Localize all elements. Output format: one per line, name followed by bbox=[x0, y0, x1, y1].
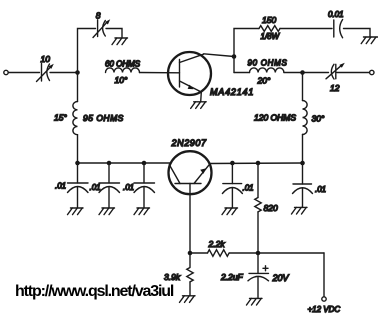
svg-text:90 OHMS: 90 OHMS bbox=[248, 59, 288, 68]
node output junction bbox=[300, 70, 305, 75]
inductor L4 120 OHMS bbox=[303, 73, 308, 164]
capacitor C .01 bypass 5 bbox=[293, 163, 313, 207]
wire bbox=[344, 29, 371, 38]
wire bbox=[234, 72, 250, 74]
svg-text:95 OHMS: 95 OHMS bbox=[83, 113, 124, 123]
svg-text:+12 VDC: +12 VDC bbox=[308, 305, 341, 314]
wire bbox=[106, 29, 122, 39]
capacitor C 8pF variable bbox=[93, 19, 110, 37]
node bottom left bbox=[188, 251, 193, 256]
ground bbox=[222, 208, 238, 215]
wire bbox=[190, 252, 208, 254]
svg-text:20°: 20° bbox=[257, 76, 271, 86]
node input junction bbox=[75, 70, 80, 75]
ground bbox=[361, 37, 378, 44]
svg-text:10: 10 bbox=[41, 54, 51, 64]
wire +12V feed bbox=[323, 253, 325, 297]
ground bbox=[292, 207, 308, 214]
resistor R1 150 bbox=[259, 26, 280, 32]
node rail left 1 bbox=[75, 161, 80, 166]
wire bbox=[50, 72, 78, 74]
node rail right 2 bbox=[256, 161, 261, 166]
ground bbox=[247, 298, 263, 305]
wire bbox=[303, 72, 329, 74]
svg-text:20V: 20V bbox=[272, 273, 290, 283]
wire mid rail right bbox=[209, 162, 302, 165]
wire bbox=[8, 72, 39, 74]
resistor R2 820 bbox=[255, 163, 261, 253]
output terminal bbox=[370, 70, 374, 74]
inductor L2 90 OHMS bbox=[250, 68, 284, 73]
svg-text:MA42141: MA42141 bbox=[210, 87, 254, 97]
wire collector bbox=[204, 54, 234, 57]
svg-text:12: 12 bbox=[330, 83, 340, 93]
node bottom right bbox=[256, 251, 261, 256]
wire base MA42141 bbox=[140, 72, 180, 74]
wire bbox=[233, 57, 235, 73]
capacitor C 10pF variable bbox=[37, 64, 54, 82]
node rail left 2 bbox=[107, 161, 112, 166]
svg-text:.01: .01 bbox=[90, 183, 101, 192]
node collector junction bbox=[232, 54, 237, 59]
inductor L1 60 OHMS bbox=[106, 68, 140, 73]
ground bbox=[191, 102, 207, 109]
wire bbox=[280, 28, 332, 30]
wire bbox=[230, 252, 325, 254]
ground bbox=[112, 38, 128, 45]
svg-text:3.9k: 3.9k bbox=[164, 272, 181, 282]
ground bbox=[68, 208, 84, 215]
capacitor C 0.01 bbox=[334, 20, 343, 38]
svg-text:1/8W: 1/8W bbox=[261, 32, 281, 41]
svg-text:60 OHMS: 60 OHMS bbox=[105, 60, 141, 69]
resistor R3 2.2k bbox=[208, 250, 230, 257]
wire bbox=[234, 29, 259, 57]
capacitor C 12pF variable bbox=[326, 63, 345, 79]
svg-text:15°: 15° bbox=[54, 113, 67, 123]
wire mid rail left bbox=[78, 162, 171, 164]
wire base stem Q2 bbox=[189, 184, 191, 254]
resistor R4 3.9k bbox=[187, 253, 193, 296]
ground bbox=[180, 296, 196, 303]
svg-text:8: 8 bbox=[96, 11, 101, 21]
svg-text:0.01: 0.01 bbox=[328, 10, 344, 19]
wire bbox=[78, 29, 96, 73]
node rail right 1 bbox=[230, 161, 235, 166]
capacitor C5 2.2uF electrolytic bbox=[248, 253, 269, 298]
wire bbox=[337, 72, 369, 74]
+12V terminal bbox=[322, 297, 326, 301]
node rail left 3 bbox=[142, 161, 147, 166]
svg-text:120 OHMS: 120 OHMS bbox=[254, 113, 296, 123]
transistor Q1 MA42141 bbox=[168, 52, 211, 95]
capacitor C .01 bypass 2 bbox=[99, 163, 120, 208]
svg-text:10°: 10° bbox=[115, 75, 128, 85]
svg-text:820: 820 bbox=[264, 203, 278, 213]
capacitor C .01 bypass 3 bbox=[134, 163, 155, 208]
ground bbox=[134, 208, 150, 215]
ground bbox=[99, 208, 115, 215]
transistor Q2 2N2907 bbox=[169, 151, 212, 194]
input terminal bbox=[4, 70, 8, 74]
inductor L3 95 OHMS bbox=[73, 73, 78, 164]
svg-text:2.2uF: 2.2uF bbox=[220, 272, 244, 282]
svg-text:.01: .01 bbox=[315, 185, 326, 194]
svg-text:.01: .01 bbox=[243, 184, 254, 193]
wire bbox=[284, 72, 303, 74]
url watermark bbox=[15, 283, 173, 301]
svg-text:30°: 30° bbox=[312, 114, 325, 124]
svg-text:2N2907: 2N2907 bbox=[171, 138, 208, 148]
capacitor C .01 bypass 1 bbox=[68, 163, 89, 208]
node rail right 3 bbox=[300, 161, 305, 166]
wire emitter stem bbox=[200, 92, 203, 102]
svg-text:.01: .01 bbox=[55, 182, 66, 191]
svg-text:.01: .01 bbox=[123, 183, 134, 192]
svg-text:150: 150 bbox=[262, 15, 276, 25]
capacitor C .01 bypass 4 bbox=[222, 163, 242, 208]
svg-text:2.2k: 2.2k bbox=[208, 239, 226, 249]
